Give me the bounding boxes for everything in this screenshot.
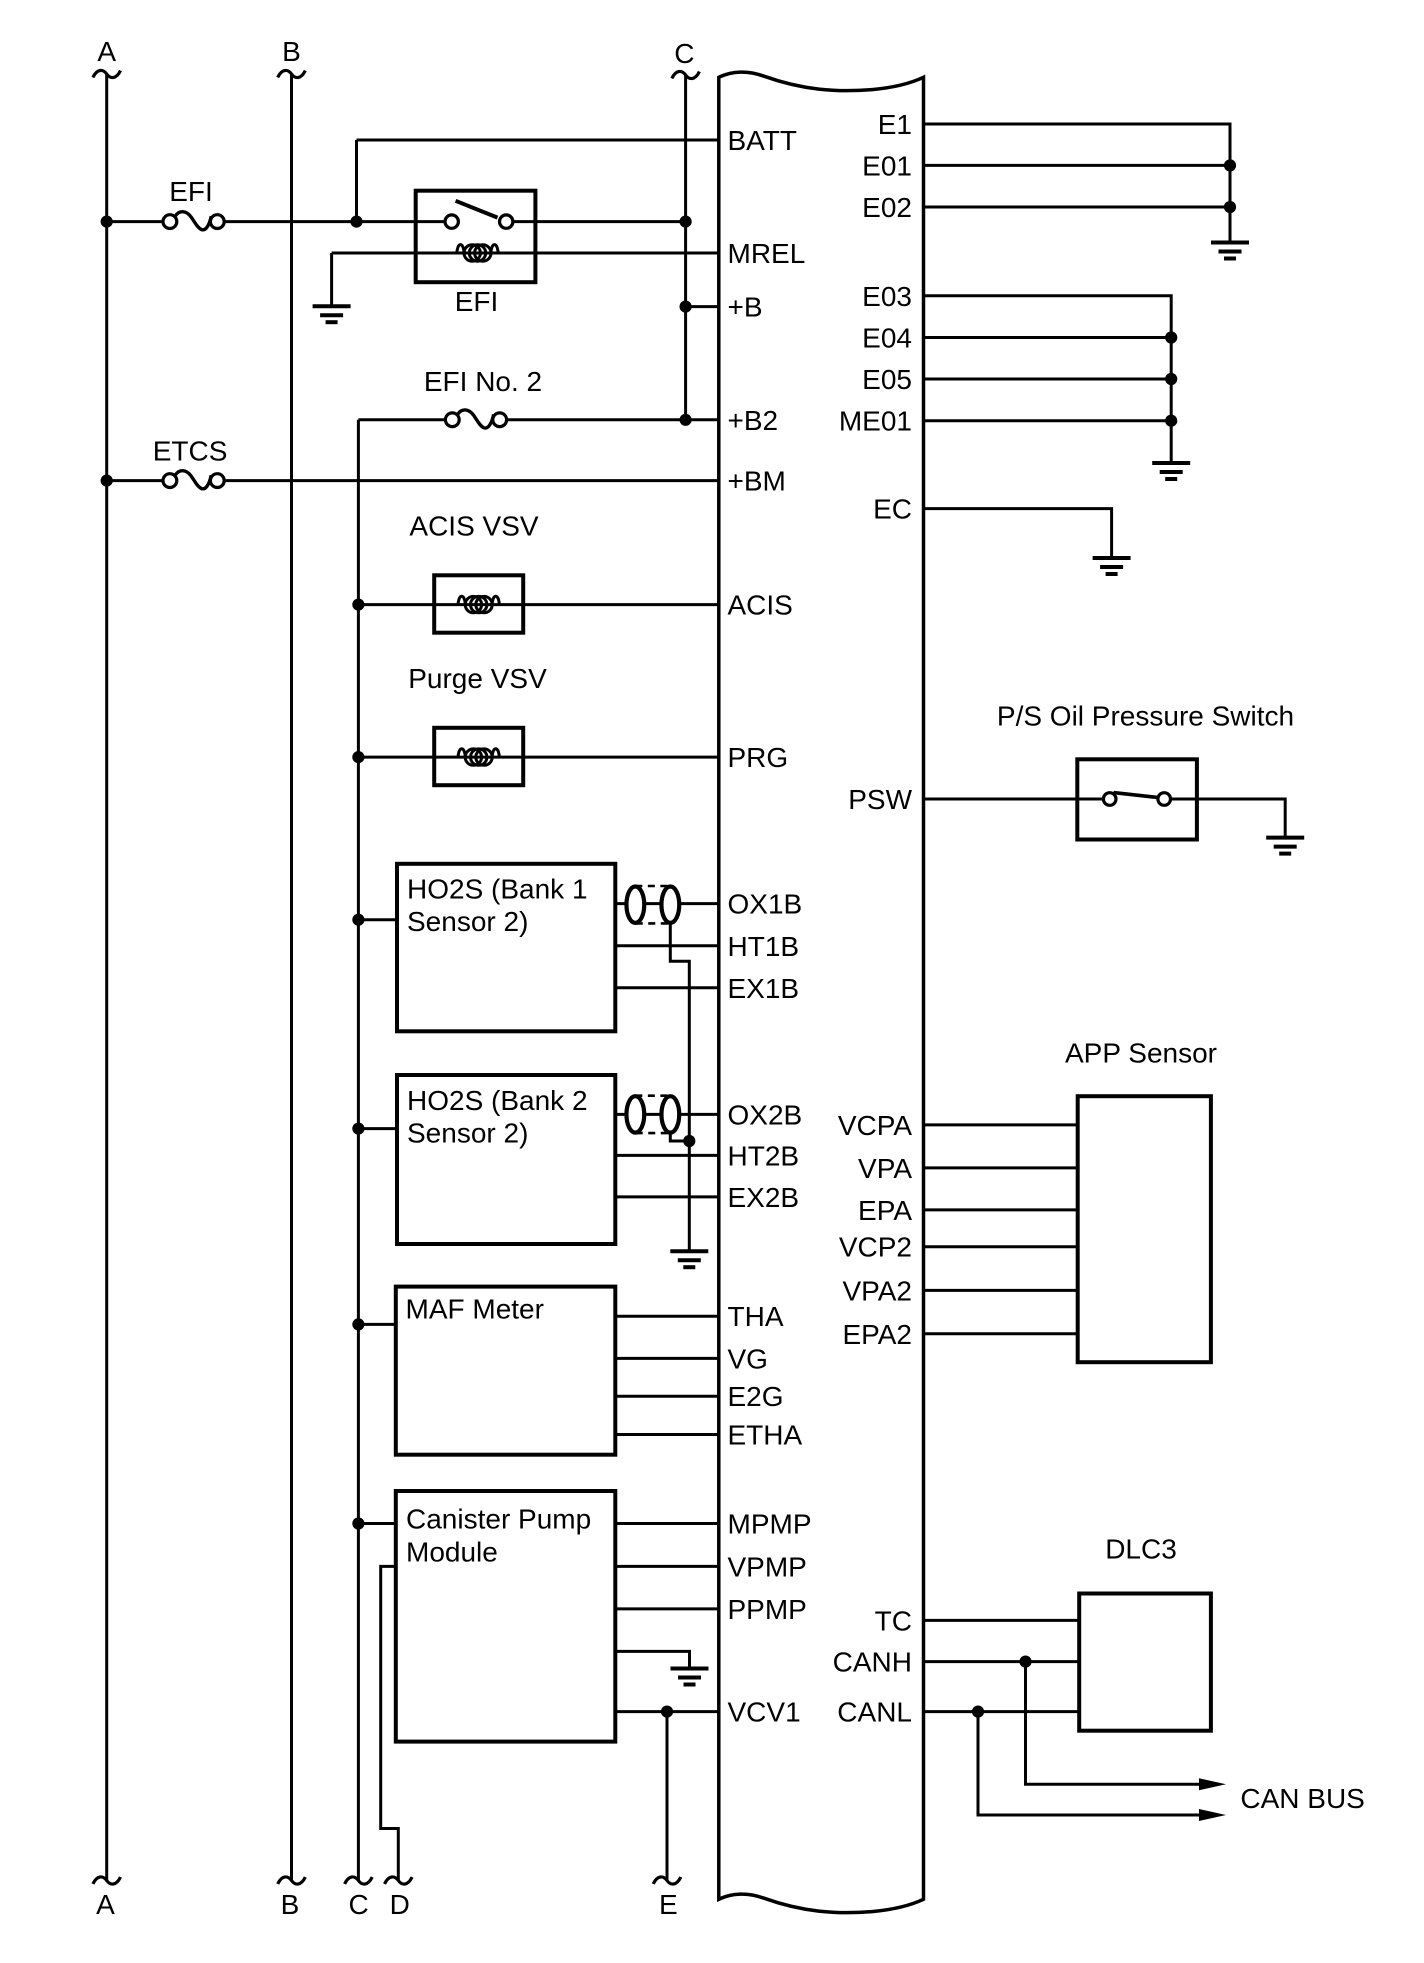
junction A x EFI fuse wire (101, 216, 113, 228)
wire canister to ground (615, 1651, 689, 1668)
wire MPMP (615, 1522, 719, 1525)
wire E02 (924, 206, 1231, 209)
svg-text:A: A (97, 36, 116, 67)
svg-text:MREL: MREL (728, 238, 806, 269)
junction E04 (1165, 331, 1177, 343)
wire HT2B (615, 1154, 719, 1157)
svg-text:EX2B: EX2B (728, 1182, 800, 1213)
svg-text:HT2B: HT2B (728, 1140, 800, 1171)
relay EFI switch contact left (445, 215, 458, 228)
ground EFI relay coil (313, 306, 351, 322)
svg-text:VCV1: VCV1 (728, 1697, 801, 1728)
svg-text:TC: TC (875, 1605, 912, 1636)
switch contact right (1158, 793, 1171, 806)
wire VPA2 (924, 1289, 1078, 1292)
svg-text:OX1B: OX1B (728, 889, 803, 920)
wire relay switch output to net C (513, 220, 686, 223)
svg-text:B: B (282, 36, 301, 67)
fuse EFI No. 2 (445, 410, 506, 428)
svg-text:PSW: PSW (848, 784, 912, 815)
svg-text:HO2S (Bank 1: HO2S (Bank 1 (407, 874, 588, 905)
svg-text:EFI: EFI (169, 176, 213, 207)
wire BATT feed vertical (355, 140, 358, 222)
wire net C to HO2S bank1 (358, 918, 397, 921)
svg-text:C: C (348, 1889, 368, 1920)
junction CANH (1019, 1656, 1031, 1668)
svg-text:C: C (674, 38, 694, 69)
sensor HO2S (Bank 2 Sensor 2) box (397, 1075, 615, 1244)
svg-text:A: A (96, 1889, 115, 1920)
svg-text:E04: E04 (862, 323, 912, 354)
wire E05 (924, 378, 1172, 381)
wire VPMP (615, 1565, 719, 1568)
junction net C x Canister (352, 1517, 364, 1529)
svg-text:ME01: ME01 (839, 406, 912, 437)
net E vertical wire (666, 1712, 669, 1881)
wire A to EFI fuse to EFI relay (107, 220, 170, 223)
svg-text:ACIS VSV: ACIS VSV (409, 511, 538, 542)
svg-text:E03: E03 (862, 281, 912, 312)
svg-text:EPA: EPA (858, 1195, 912, 1226)
wire E01 (924, 164, 1231, 167)
net C bottom break symbol (345, 1877, 373, 1884)
junction E01 (1224, 159, 1236, 171)
svg-text:+B: +B (728, 292, 763, 323)
switch contact left (1103, 793, 1116, 806)
svg-text:E: E (659, 1889, 678, 1920)
wire CANH (924, 1660, 1080, 1663)
wire VCP2 (924, 1245, 1078, 1248)
svg-text:Purge VSV: Purge VSV (408, 663, 547, 694)
svg-text:E2G: E2G (728, 1381, 784, 1412)
ECU connector block (torn edges) (719, 72, 924, 1913)
wire ETHA (615, 1433, 719, 1436)
wire EPA (924, 1208, 1078, 1211)
wire E1 (924, 124, 1231, 243)
svg-text:CANL: CANL (837, 1697, 912, 1728)
svg-text:VCPA: VCPA (838, 1110, 912, 1141)
wire ME01 (924, 419, 1172, 422)
wire net C to HO2S bank2 (358, 1127, 397, 1130)
junction shield drains (683, 1135, 695, 1147)
svg-text:ETHA: ETHA (728, 1420, 803, 1451)
wire CANH to CAN BUS arrow (1026, 1662, 1202, 1785)
sensor HO2S (Bank 1 Sensor 2) box (397, 864, 615, 1032)
fuse ETCS (163, 471, 224, 489)
svg-text:P/S Oil Pressure Switch: P/S Oil Pressure Switch (997, 701, 1294, 732)
wire shield drain bank1 to ground (670, 923, 689, 1251)
wire EC (924, 509, 1112, 558)
junction E05 (1165, 373, 1177, 385)
ground canister pump (671, 1669, 709, 1685)
shielded pair OX2B (626, 1096, 679, 1133)
junction +B x net C (680, 301, 692, 313)
junction ME01 (1165, 415, 1177, 427)
junction net C x ACIS wire (352, 599, 364, 611)
wire coil to ground (330, 253, 333, 306)
wire VCV1 (615, 1710, 719, 1713)
junction net C x PRG wire (352, 751, 364, 763)
svg-text:EX1B: EX1B (728, 973, 800, 1004)
solenoid Purge VSV box (434, 728, 523, 785)
junction VCV1 x net E (661, 1706, 673, 1718)
junction net C x MAF (352, 1318, 364, 1330)
switch blade (1114, 793, 1159, 798)
svg-text:E05: E05 (862, 364, 912, 395)
solenoid ACIS VSV box (434, 575, 523, 632)
svg-text:D: D (390, 1889, 410, 1920)
svg-text:EPA2: EPA2 (842, 1319, 912, 1350)
sensor MAF Meter box (396, 1287, 616, 1455)
wire shield drain bank2 (670, 1133, 689, 1141)
wire CANL to CAN BUS arrow (978, 1712, 1201, 1815)
ground E03/E04/E05/ME01 (1152, 463, 1190, 479)
svg-text:VPA: VPA (858, 1153, 912, 1184)
svg-text:EC: EC (873, 494, 912, 525)
wire MREL coil to ECU (332, 252, 719, 255)
junction +B2 x net C upper (680, 414, 692, 426)
wire VG (615, 1357, 719, 1360)
svg-text:ACIS: ACIS (728, 590, 793, 621)
svg-text:OX2B: OX2B (728, 1099, 803, 1130)
net C lower vertical segment (357, 420, 360, 1881)
ground EC (1093, 558, 1131, 574)
wire net C to Purge VSV to ECU PRG (358, 756, 718, 759)
wire EX1B (615, 986, 719, 989)
relay EFI coil (457, 245, 498, 262)
svg-text:PRG: PRG (728, 742, 789, 773)
wire EPA2 (924, 1332, 1078, 1335)
svg-text:Sensor 2): Sensor 2) (407, 906, 528, 937)
svg-text:MAF Meter: MAF Meter (406, 1293, 544, 1324)
arrow CANH (1199, 1778, 1226, 1790)
net B vertical bus line (290, 74, 293, 1881)
net E bottom break symbol (653, 1877, 681, 1884)
svg-text:HT1B: HT1B (728, 931, 800, 962)
wire THA (615, 1315, 719, 1318)
wire VPA (924, 1166, 1078, 1169)
wire OX1B (615, 902, 719, 905)
svg-text:APP Sensor: APP Sensor (1065, 1037, 1217, 1068)
wire E04 (924, 336, 1172, 339)
svg-text:+BM: +BM (728, 466, 786, 497)
connector DLC3 box (1079, 1594, 1211, 1731)
svg-text:ETCS: ETCS (153, 435, 228, 466)
svg-text:E01: E01 (862, 150, 912, 181)
junction A x ETCS fuse wire (101, 475, 113, 487)
shielded pair OX1B (626, 886, 679, 923)
relay EFI switch blade (456, 201, 498, 218)
solenoid Purge VSV coil (458, 749, 499, 766)
net C top break symbol (672, 71, 700, 78)
wire HT1B (615, 944, 719, 947)
svg-text:HO2S (Bank 2: HO2S (Bank 2 (407, 1085, 588, 1116)
wire EFI No.2 fuse row to ECU +B2 (358, 418, 452, 421)
net D bottom break symbol (385, 1877, 413, 1884)
ground E1/E01/E02 (1211, 243, 1249, 259)
ground P/S switch (1266, 838, 1304, 854)
svg-text:THA: THA (728, 1301, 784, 1332)
svg-text:+B2: +B2 (728, 405, 779, 436)
wire PPMP (615, 1607, 719, 1610)
net A vertical bus line (105, 74, 108, 1881)
arrow CANL (1199, 1809, 1226, 1821)
relay EFI box (416, 191, 536, 283)
net A top break symbol (93, 70, 121, 77)
svg-text:PPMP: PPMP (728, 1594, 807, 1625)
net C upper vertical segment (684, 75, 687, 420)
junction net C x HO2S bank2 (352, 1123, 364, 1135)
wire VCPA (924, 1123, 1078, 1126)
junction net C x HO2S bank1 (352, 914, 364, 926)
ground HO2S shield (670, 1251, 708, 1267)
svg-text:EFI No. 2: EFI No. 2 (424, 366, 542, 397)
wire E03 (924, 296, 1172, 463)
svg-text:DLC3: DLC3 (1105, 1534, 1177, 1565)
junction CANL (972, 1706, 984, 1718)
svg-text:E1: E1 (878, 109, 912, 140)
sensor APP box (1078, 1096, 1211, 1362)
svg-text:VPA2: VPA2 (842, 1275, 912, 1306)
net A bottom break symbol (93, 1877, 121, 1884)
fuse EFI (163, 212, 224, 230)
net B bottom break symbol (278, 1877, 306, 1884)
switch P/S Oil Pressure box (1077, 759, 1197, 839)
svg-text:CANH: CANH (833, 1647, 912, 1678)
svg-text:VCP2: VCP2 (839, 1232, 912, 1263)
wire EX2B (615, 1195, 719, 1198)
wire BATT horizontal to ECU (357, 139, 719, 142)
svg-text:EFI: EFI (455, 286, 499, 317)
svg-text:B: B (281, 1889, 300, 1920)
svg-text:E02: E02 (862, 192, 912, 223)
svg-text:Module: Module (406, 1536, 498, 1567)
svg-text:VG: VG (728, 1343, 768, 1374)
wire E2G (615, 1395, 719, 1398)
svg-text:Sensor 2): Sensor 2) (407, 1118, 528, 1149)
svg-text:VPMP: VPMP (728, 1551, 807, 1582)
wire PSW to switch (924, 798, 1104, 801)
wire OX2B (615, 1113, 719, 1116)
junction relay output x net C (680, 216, 692, 228)
junction E02 (1224, 201, 1236, 213)
module Canister Pump box (396, 1491, 616, 1742)
wire A to ETCS fuse to ECU +BM (107, 479, 170, 482)
wire net C to MAF Meter (358, 1323, 395, 1326)
svg-text:CAN BUS: CAN BUS (1240, 1783, 1364, 1814)
net B top break symbol (278, 70, 306, 77)
wire net C to Canister Pump Module (358, 1522, 395, 1525)
net D wire from Canister Pump Module (381, 1566, 399, 1880)
svg-text:BATT: BATT (728, 125, 797, 156)
wire +B stub from net C (686, 305, 719, 308)
svg-text:Canister Pump: Canister Pump (406, 1503, 591, 1534)
wire TC (924, 1619, 1080, 1622)
relay EFI switch contact right (500, 215, 513, 228)
wire CANL (924, 1710, 1080, 1713)
junction BATT feed x relay wire (350, 216, 362, 228)
wire switch to ground (1171, 799, 1286, 838)
wire net C to ACIS VSV to ECU ACIS (358, 603, 718, 606)
solenoid ACIS VSV coil (458, 596, 499, 613)
svg-text:MPMP: MPMP (728, 1509, 812, 1540)
